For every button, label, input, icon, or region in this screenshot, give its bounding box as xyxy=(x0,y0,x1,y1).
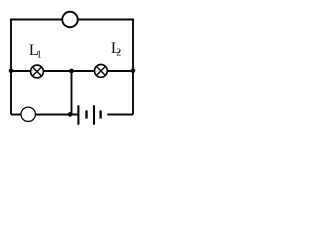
battery plate: cell 1 short xyxy=(85,110,87,118)
battery plate: cell 2 long xyxy=(93,105,95,124)
meter (bottom-left unlabeled circle component) xyxy=(21,107,35,121)
svg-text:2: 2 xyxy=(116,47,121,58)
wire: top-left segment xyxy=(11,19,62,21)
label L1 xyxy=(29,42,42,61)
battery B1 (two cells) xyxy=(78,105,100,124)
wire: right vertical xyxy=(132,19,134,115)
node: bottom junction dot xyxy=(68,112,73,117)
wire: middle horizontal xyxy=(11,70,133,72)
battery plate: cell 2 short xyxy=(99,110,101,118)
wire: bottom middle segment xyxy=(36,114,78,116)
wire: bottom-left segment xyxy=(11,114,21,116)
wire: left vertical xyxy=(10,19,12,115)
meter (top unlabeled circle component) xyxy=(62,12,78,28)
node: middle junction dot xyxy=(69,69,74,74)
wire: middle vertical branch xyxy=(71,71,73,114)
node: left junction dot xyxy=(9,69,14,74)
wire: bottom-right segment xyxy=(107,114,133,116)
wire: top-right segment xyxy=(78,19,133,21)
lamp L1 xyxy=(31,65,44,78)
node: right junction dot xyxy=(131,68,136,73)
battery plate: cell 1 long xyxy=(77,105,79,124)
svg-text:1: 1 xyxy=(37,50,42,61)
lamp L2 xyxy=(95,65,108,78)
label L2 xyxy=(111,40,121,58)
